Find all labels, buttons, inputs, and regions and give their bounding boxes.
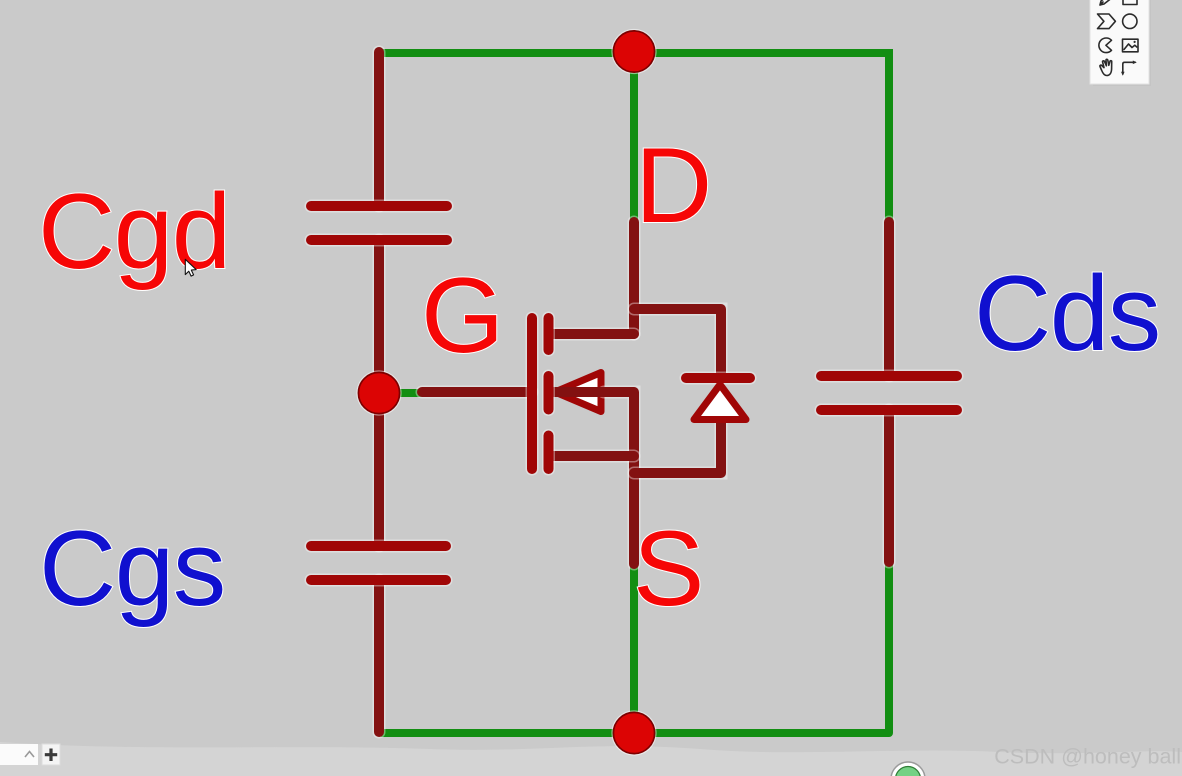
wire source tap to channel [550, 450, 634, 463]
toolbar icon pencil (cut off) [1100, 0, 1113, 5]
toolbar icon arc pacman [1099, 38, 1112, 53]
toolbar icon rectangle (cut off) [1123, 0, 1137, 5]
svg-text:Cgs: Cgs [39, 508, 225, 628]
diode cathode bar [686, 372, 750, 385]
toolbar icon corner axes [1121, 61, 1137, 76]
toolbar icon circle [1123, 14, 1137, 28]
wire body arrow line and source connector [554, 392, 634, 564]
bottom tab bar [0, 744, 38, 765]
svg-text:Cds: Cds [974, 253, 1160, 373]
wire body diode bottom branch [634, 421, 721, 473]
toolbar icon chevron [1098, 14, 1116, 29]
svg-text:CSDN @honey ball: CSDN @honey ball [994, 745, 1181, 769]
wire green drain vertical [630, 53, 638, 220]
mouse cursor [185, 259, 196, 276]
MOSFET channel bar middle [542, 376, 555, 410]
capacitor Cgd top plate [311, 200, 447, 213]
wire green right rail lower + bottom horizontal [381, 562, 889, 733]
node junction dot top [611, 29, 656, 74]
wire gate lead [422, 386, 532, 399]
wire left rail lower (Cgs to bottom) [373, 580, 386, 732]
MOSFET channel bar bottom [542, 436, 555, 470]
add sheet button [42, 744, 60, 765]
capacitor Cds top plate [821, 370, 957, 383]
svg-text:Cgd: Cgd [38, 171, 230, 291]
node junction dot bottom [611, 710, 656, 755]
toolbar icon hand [1100, 59, 1112, 75]
MOSFET gate bar [526, 318, 539, 469]
MOSFET body arrow head [555, 373, 601, 412]
capacitor Cgs top plate [311, 540, 446, 553]
node gate junction dot [356, 370, 401, 415]
wire right rail lower red (Cds to green) [883, 410, 896, 562]
capacitor Cgs bottom plate [311, 574, 446, 587]
svg-text:S: S [633, 508, 703, 628]
watermark band [0, 742, 1182, 776]
wire green right rail upper [885, 49, 893, 220]
wire right rail upper red (green to Cds) [883, 222, 896, 376]
wire drain tap to channel [550, 328, 634, 341]
diode anode triangle [694, 385, 746, 420]
wire left rail upper (top to Cgd) [373, 52, 386, 206]
toolbar panel [1090, 0, 1151, 86]
svg-text:D: D [635, 125, 711, 245]
capacitor Cgd bottom plate [311, 234, 447, 247]
wire drain lead red [628, 222, 641, 334]
capacitor Cds bottom plate [821, 404, 957, 417]
tab chevron [25, 752, 34, 758]
toolbar icon image [1123, 39, 1139, 52]
wire green top horizontal [381, 49, 889, 57]
svg-text:G: G [421, 255, 503, 375]
green avatar badge [891, 762, 925, 776]
wire green source vertical [630, 566, 638, 733]
wire body diode top branch [634, 309, 721, 376]
MOSFET channel bar top [542, 318, 555, 350]
wire green gate stub [400, 389, 422, 397]
wire left rail middle (Cgd to Cgs through gate node) [373, 240, 386, 546]
